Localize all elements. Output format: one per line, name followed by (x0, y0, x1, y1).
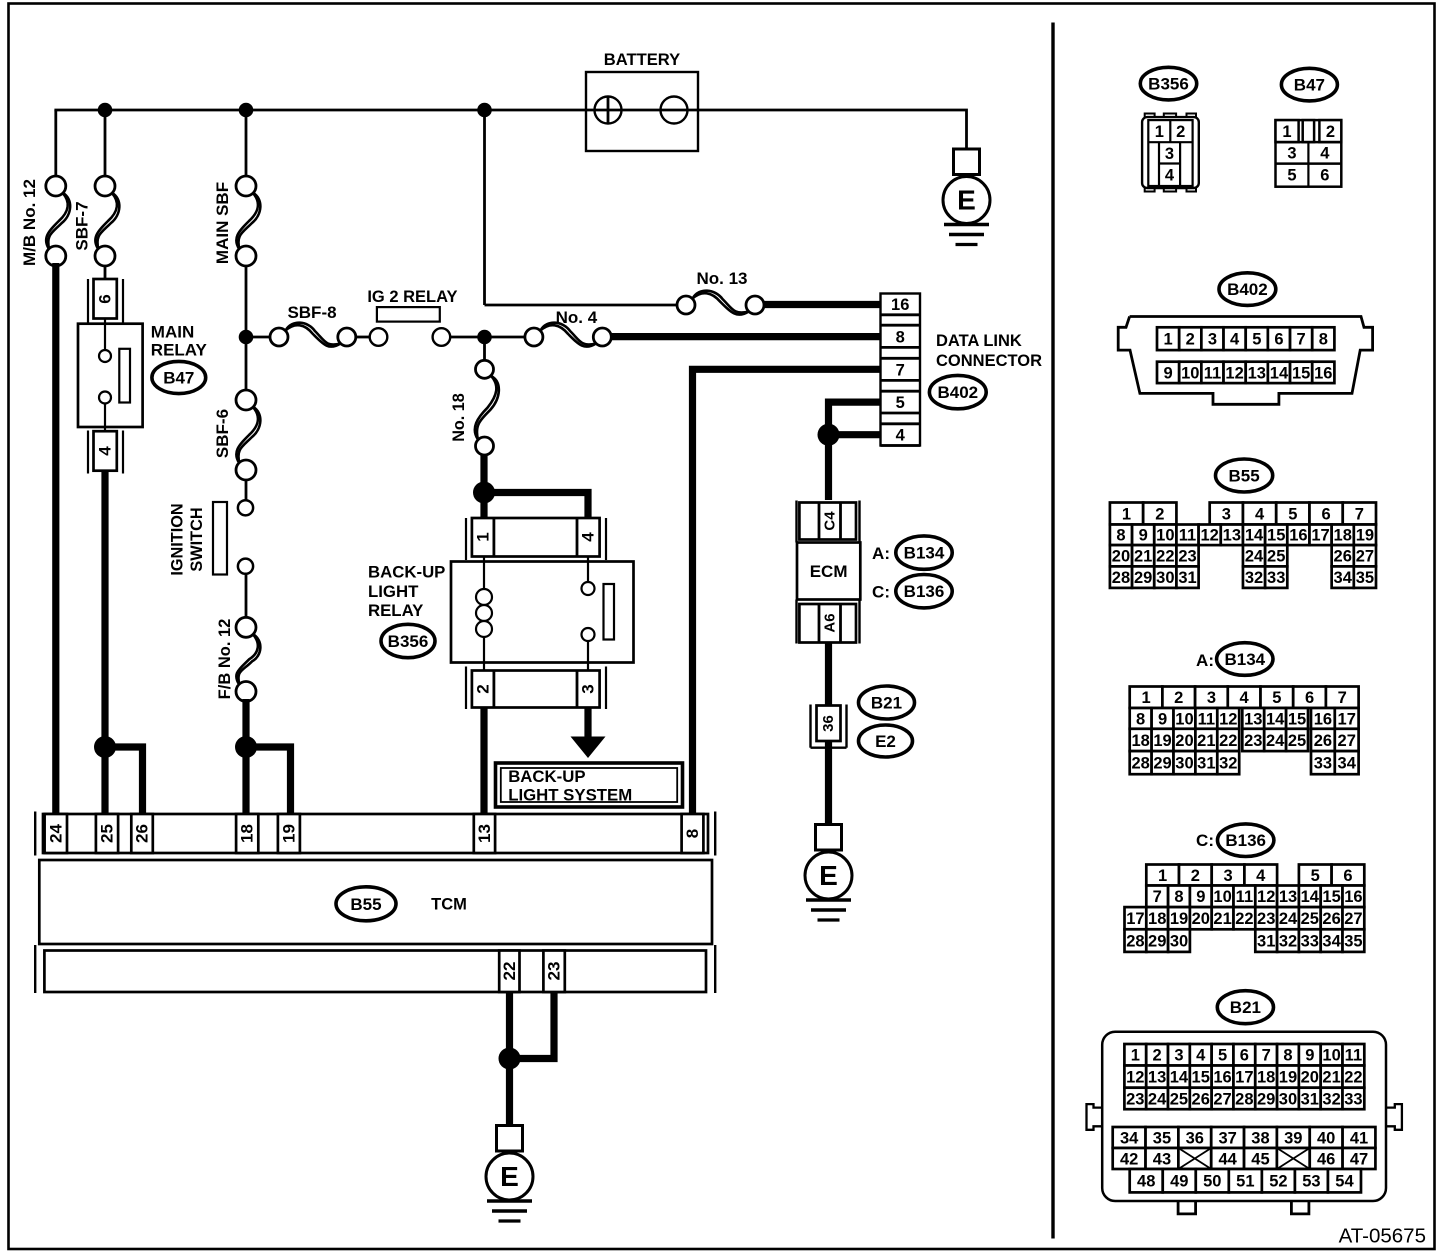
svg-text:12: 12 (1225, 364, 1243, 382)
svg-text:35: 35 (1356, 569, 1374, 587)
body connector pin 36 (811, 705, 847, 748)
IG 2 relay contact (370, 328, 451, 346)
connector B402 pin rows (1157, 327, 1334, 383)
svg-text:54: 54 (1335, 1173, 1354, 1191)
svg-text:19: 19 (1279, 1069, 1297, 1087)
svg-text:16: 16 (1314, 710, 1332, 728)
svg-text:18: 18 (1148, 910, 1166, 928)
svg-text:8: 8 (896, 328, 905, 346)
label C: B136 (872, 575, 952, 608)
connector ref oval B356 (pinout) (1140, 67, 1196, 100)
svg-text:47: 47 (1350, 1150, 1368, 1168)
svg-text:6: 6 (96, 294, 115, 303)
svg-text:TCM: TCM (431, 896, 467, 914)
svg-text:11: 11 (1204, 364, 1221, 382)
svg-text:1: 1 (1122, 505, 1131, 523)
wire - IG2 relay to No.4 junction (450, 336, 484, 339)
svg-text:B55: B55 (1229, 467, 1260, 486)
svg-text:6: 6 (1305, 689, 1314, 707)
svg-text:25: 25 (1170, 1090, 1188, 1108)
connector ref oval B402 (929, 375, 986, 408)
label BACK-UP LIGHT RELAY (368, 563, 445, 621)
svg-text:1: 1 (1131, 1047, 1140, 1065)
svg-text:34: 34 (1334, 569, 1353, 587)
svg-text:E: E (500, 1161, 519, 1192)
svg-text:LIGHT SYSTEM: LIGHT SYSTEM (508, 786, 632, 805)
wire - No.18 to back-up relay (bold) (480, 454, 487, 493)
svg-text:32: 32 (1219, 755, 1237, 773)
svg-text:24: 24 (1148, 1090, 1167, 1108)
svg-text:14: 14 (1170, 1069, 1189, 1087)
connector B21 pinout shell (1087, 1032, 1402, 1214)
TCM pin 24 (45, 814, 67, 853)
connector B134 pinout (1130, 687, 1359, 775)
svg-text:38: 38 (1251, 1129, 1269, 1147)
TCM pin 22 (499, 951, 519, 993)
wire - column SBF-7 (104, 110, 107, 177)
svg-text:15: 15 (1322, 888, 1340, 906)
svg-text:30: 30 (1175, 755, 1193, 773)
node - junction back-up relay coil/contact feed (473, 482, 495, 504)
svg-text:RELAY: RELAY (151, 341, 208, 360)
svg-text:28: 28 (1112, 569, 1130, 587)
svg-text:10: 10 (1175, 710, 1193, 728)
svg-text:11: 11 (1236, 888, 1253, 906)
label C: with oval B136 (pinout) (1196, 824, 1274, 857)
svg-text:13: 13 (1148, 1069, 1166, 1087)
wire - junction to SBF-8 (246, 336, 271, 339)
svg-text:3: 3 (1165, 145, 1174, 163)
main relay connector pin 4 (88, 431, 123, 474)
fuse No. 4 (541, 325, 596, 347)
svg-text:7: 7 (1355, 505, 1364, 523)
svg-text:30: 30 (1156, 569, 1174, 587)
svg-text:14: 14 (1266, 710, 1285, 728)
node - junction to TCM pin 19 (235, 736, 257, 758)
svg-text:28: 28 (1131, 755, 1149, 773)
svg-text:31: 31 (1178, 569, 1196, 587)
svg-text:4: 4 (1256, 867, 1266, 885)
TCM pin 26 (131, 814, 153, 853)
wire - No.13 to data link pin 16 (bold) (764, 301, 882, 308)
svg-text:19: 19 (1356, 527, 1374, 545)
wire - relay pin 4 to TCM pin 25 (bold) (101, 471, 108, 816)
svg-text:SBF-6: SBF-6 (213, 409, 232, 458)
svg-text:1: 1 (1282, 123, 1291, 141)
svg-text:15: 15 (1288, 710, 1306, 728)
svg-text:6: 6 (1322, 505, 1331, 523)
svg-text:42: 42 (1120, 1150, 1138, 1168)
svg-text:LIGHT: LIGHT (368, 582, 419, 601)
fuse M/B No. 12 (46, 193, 68, 250)
wire - column M/B No.12 (54, 110, 57, 177)
svg-text:B402: B402 (937, 383, 978, 402)
svg-text:27: 27 (1344, 910, 1362, 928)
svg-text:12: 12 (1126, 1069, 1144, 1087)
svg-text:49: 49 (1170, 1173, 1188, 1191)
svg-text:41: 41 (1350, 1129, 1368, 1147)
main relay connector pin 6 (88, 279, 123, 323)
svg-text:18: 18 (1334, 527, 1352, 545)
svg-text:C:: C: (1196, 831, 1214, 850)
svg-text:4: 4 (1320, 145, 1330, 163)
svg-text:31: 31 (1197, 755, 1215, 773)
svg-text:33: 33 (1314, 755, 1332, 773)
wire - M/B No.12 to TCM pin 24 (bold) (52, 263, 59, 816)
svg-text:1: 1 (1155, 123, 1164, 141)
svg-text:3: 3 (1287, 145, 1296, 163)
wire - SBF-7 to relay pin 6 (104, 265, 107, 280)
wire - No.4 to data link pin 8 (bold) (611, 333, 882, 340)
svg-text:20: 20 (1175, 732, 1193, 750)
svg-text:18: 18 (1257, 1069, 1275, 1087)
svg-text:18: 18 (1131, 732, 1149, 750)
relay B47 - MAIN RELAY box (78, 319, 143, 432)
svg-text:15: 15 (1292, 364, 1310, 382)
svg-text:16: 16 (1213, 1069, 1231, 1087)
svg-text:MAIN SBF: MAIN SBF (213, 182, 232, 264)
svg-text:BACK-UP: BACK-UP (368, 563, 445, 582)
svg-text:9: 9 (1305, 1047, 1314, 1065)
svg-text:21: 21 (1197, 732, 1215, 750)
svg-text:RELAY: RELAY (368, 601, 423, 620)
svg-text:4: 4 (579, 532, 598, 542)
relay coil (476, 589, 492, 637)
svg-text:26: 26 (133, 824, 152, 843)
svg-text:14: 14 (1245, 527, 1264, 545)
svg-text:25: 25 (1288, 732, 1306, 750)
svg-text:16: 16 (1344, 888, 1362, 906)
wire - TCM pin 22 to ground (bold) (506, 992, 513, 1059)
svg-text:B21: B21 (871, 694, 902, 713)
svg-text:13: 13 (1248, 364, 1266, 382)
svg-text:2: 2 (1153, 1047, 1162, 1065)
label MAIN RELAY (151, 323, 208, 360)
back-up light relay connector pins 2 and 3 (466, 667, 606, 710)
svg-text:19: 19 (1170, 910, 1188, 928)
connector B55 pinout (1110, 503, 1376, 588)
svg-text:26: 26 (1334, 548, 1352, 566)
svg-text:24: 24 (1279, 910, 1298, 928)
label A: B134 (872, 536, 952, 569)
svg-text:36: 36 (1186, 1129, 1204, 1147)
svg-text:3: 3 (1174, 1047, 1183, 1065)
connector B47 pinout (1276, 120, 1342, 187)
svg-text:3: 3 (1223, 867, 1232, 885)
svg-text:34: 34 (1322, 933, 1341, 951)
svg-text:A:: A: (1196, 651, 1214, 670)
connector ref oval B47 (152, 361, 206, 393)
wire - relay pin 2 to TCM pin 13 (bold) (480, 708, 487, 817)
svg-text:8: 8 (1174, 888, 1183, 906)
svg-text:C4: C4 (821, 511, 838, 531)
fuse SBF-8 (286, 325, 341, 347)
svg-text:9: 9 (1196, 888, 1205, 906)
svg-text:11: 11 (1179, 527, 1196, 545)
svg-text:E2: E2 (875, 732, 896, 751)
wire - data link pin 7 to TCM pin 8 (bold) (693, 369, 882, 816)
fuse MAIN SBF (236, 193, 258, 250)
svg-text:E: E (957, 184, 976, 215)
svg-text:40: 40 (1317, 1129, 1335, 1147)
svg-text:7: 7 (1262, 1047, 1271, 1065)
wire - junction to No.4 fuse (485, 336, 526, 339)
svg-text:27: 27 (1338, 732, 1356, 750)
connector ref oval B21 (859, 686, 915, 719)
relay B356 - back-up light relay box (451, 557, 634, 671)
svg-text:33: 33 (1301, 933, 1319, 951)
wire - SBF-8 to IG2 relay contact (356, 336, 370, 339)
TCM top connector row (35, 812, 715, 856)
svg-text:No. 18: No. 18 (450, 393, 468, 442)
svg-text:5: 5 (1288, 505, 1297, 523)
svg-text:3: 3 (1222, 505, 1231, 523)
svg-text:10: 10 (1322, 1047, 1340, 1065)
svg-text:8: 8 (1116, 527, 1125, 545)
svg-text:23: 23 (545, 962, 564, 981)
svg-text:IG 2 RELAY: IG 2 RELAY (367, 288, 457, 306)
svg-text:22: 22 (1219, 732, 1237, 750)
label A: with oval B134 (pinout) (1196, 643, 1273, 676)
svg-text:B402: B402 (1227, 280, 1268, 299)
svg-text:8: 8 (683, 829, 702, 838)
svg-text:1: 1 (1158, 867, 1167, 885)
connector ref oval B402 (pinout) (1219, 273, 1276, 306)
svg-text:24: 24 (1266, 732, 1285, 750)
svg-text:21: 21 (1213, 910, 1231, 928)
TCM pin 23 (543, 951, 564, 993)
wire - ignition switch to F/B No.12 (245, 574, 248, 618)
node - junction MAIN SBF branch (239, 103, 254, 118)
svg-text:34: 34 (1338, 755, 1357, 773)
wire - junction to SBF-6 (245, 337, 248, 391)
label DATA LINK CONNECTOR (936, 332, 1042, 370)
svg-text:1: 1 (1163, 331, 1172, 349)
svg-text:3: 3 (579, 684, 598, 693)
svg-text:26: 26 (1322, 910, 1340, 928)
svg-text:2: 2 (1186, 331, 1195, 349)
svg-text:29: 29 (1134, 569, 1152, 587)
svg-text:17: 17 (1235, 1069, 1253, 1087)
svg-text:33: 33 (1267, 569, 1285, 587)
svg-text:19: 19 (279, 824, 298, 843)
svg-text:6: 6 (1343, 867, 1352, 885)
svg-text:22: 22 (1156, 548, 1174, 566)
svg-text:B21: B21 (1230, 998, 1261, 1017)
svg-text:SBF-8: SBF-8 (287, 303, 336, 322)
TCM pin 25 (96, 814, 118, 853)
wire - relay pin 3 to back-up light system (bold) (584, 708, 591, 738)
svg-text:B356: B356 (388, 632, 429, 651)
svg-text:35: 35 (1344, 933, 1362, 951)
svg-text:8: 8 (1319, 331, 1328, 349)
svg-text:32: 32 (1279, 933, 1297, 951)
IG 2 relay box (377, 307, 440, 322)
wire - junction to data link pin 4 (bold) (829, 431, 882, 438)
svg-text:32: 32 (1322, 1090, 1340, 1108)
svg-text:30: 30 (1170, 933, 1188, 951)
connector ref oval B55 (336, 887, 396, 921)
svg-text:36: 36 (820, 715, 837, 732)
wire - junction to ground (bold) (506, 1059, 513, 1126)
svg-text:7: 7 (896, 361, 905, 379)
wire - data link pin 5 to ECM (bold) (829, 402, 882, 435)
box BACK-UP LIGHT SYSTEM (496, 763, 683, 807)
svg-text:4: 4 (1230, 331, 1240, 349)
svg-text:A:: A: (872, 544, 890, 563)
svg-text:7: 7 (1338, 689, 1347, 707)
svg-text:5: 5 (1252, 331, 1261, 349)
svg-text:6: 6 (1240, 1047, 1249, 1065)
svg-text:14: 14 (1270, 364, 1289, 382)
svg-text:MAIN: MAIN (151, 323, 194, 342)
svg-text:6: 6 (1274, 331, 1283, 349)
wire - SBF-6 to ignition switch (245, 479, 248, 500)
wire - MAIN SBF to SBF-8 junction (245, 265, 248, 337)
svg-text:21: 21 (1134, 548, 1152, 566)
relay contact (582, 557, 615, 671)
svg-text:CONNECTOR: CONNECTOR (936, 352, 1042, 370)
svg-text:13: 13 (1223, 527, 1241, 545)
svg-text:26: 26 (1192, 1090, 1210, 1108)
svg-text:31: 31 (1257, 933, 1275, 951)
svg-text:27: 27 (1213, 1090, 1231, 1108)
wire - junction to No.18 fuse (483, 337, 486, 360)
fuse F/B No. 12 (236, 634, 258, 685)
svg-text:B136: B136 (904, 582, 945, 601)
svg-text:10: 10 (1213, 888, 1231, 906)
ground E (TCM) (486, 1126, 533, 1222)
svg-text:M/B No. 12: M/B No. 12 (20, 179, 39, 266)
ECM connector A6 (797, 600, 860, 644)
fuse No. 18 (475, 376, 497, 440)
svg-text:5: 5 (1272, 689, 1281, 707)
connector B21 pin grid (1113, 1044, 1376, 1192)
label IGNITION SWITCH (168, 503, 206, 575)
svg-text:28: 28 (1235, 1090, 1253, 1108)
svg-text:12: 12 (1257, 888, 1275, 906)
svg-text:24: 24 (1245, 548, 1264, 566)
svg-text:16: 16 (1314, 364, 1332, 382)
svg-text:52: 52 (1269, 1173, 1287, 1191)
svg-text:39: 39 (1284, 1129, 1302, 1147)
svg-text:DATA LINK: DATA LINK (936, 332, 1022, 350)
svg-text:13: 13 (1244, 710, 1262, 728)
svg-text:F/B No. 12: F/B No. 12 (216, 619, 234, 700)
svg-text:11: 11 (1345, 1047, 1362, 1065)
battery (586, 72, 698, 151)
svg-text:A6: A6 (821, 613, 838, 632)
svg-text:8: 8 (1283, 1047, 1292, 1065)
node - junction ECM feed (818, 424, 840, 446)
connector ref oval E2 (859, 725, 913, 757)
svg-text:5: 5 (1287, 166, 1296, 184)
svg-text:29: 29 (1153, 755, 1171, 773)
svg-text:B136: B136 (1225, 831, 1266, 850)
svg-text:7: 7 (1297, 331, 1306, 349)
svg-text:24: 24 (46, 824, 65, 843)
svg-text:3: 3 (1207, 689, 1216, 707)
svg-text:1: 1 (1141, 689, 1150, 707)
svg-text:9: 9 (1139, 527, 1148, 545)
connector ref oval B356 (381, 624, 435, 657)
svg-text:22: 22 (1235, 910, 1253, 928)
TCM pin 18 (236, 814, 258, 853)
svg-text:13: 13 (1279, 888, 1297, 906)
wire - branch to TCM pin 19 (bold) (246, 747, 291, 816)
svg-text:5: 5 (896, 394, 905, 412)
svg-text:27: 27 (1356, 548, 1374, 566)
svg-text:2: 2 (1191, 867, 1200, 885)
svg-text:B134: B134 (904, 544, 945, 563)
svg-text:20: 20 (1301, 1069, 1319, 1087)
svg-text:25: 25 (1301, 910, 1319, 928)
svg-text:29: 29 (1257, 1090, 1275, 1108)
node - junction to TCM pin 26 (94, 736, 116, 758)
svg-text:7: 7 (1153, 888, 1162, 906)
wire - battery positive bus (top horizontal) (54, 109, 586, 112)
connector ref oval B21 (pinout) (1217, 991, 1273, 1024)
node - junction M/B No.12 branch (98, 103, 113, 118)
TCM bottom connector row (35, 945, 715, 993)
svg-text:16: 16 (1289, 527, 1307, 545)
svg-text:11: 11 (1198, 710, 1215, 728)
svg-text:25: 25 (98, 824, 117, 843)
svg-text:SWITCH: SWITCH (188, 507, 206, 571)
svg-text:B47: B47 (163, 369, 194, 388)
svg-text:35: 35 (1153, 1129, 1171, 1147)
wire - F/B No.12 to TCM pin 18 (bold) (242, 699, 249, 816)
svg-text:21: 21 (1322, 1069, 1340, 1087)
svg-text:17: 17 (1311, 527, 1329, 545)
svg-text:B47: B47 (1294, 76, 1325, 95)
svg-text:23: 23 (1244, 732, 1262, 750)
wire - connector 36 to ground (bold) (825, 741, 832, 825)
fuse SBF-6 (236, 407, 258, 464)
svg-text:37: 37 (1218, 1129, 1236, 1147)
svg-text:22: 22 (1344, 1069, 1362, 1087)
connector B136 pinout (1125, 865, 1365, 952)
ground E (ECM) (805, 825, 852, 921)
svg-text:6: 6 (1320, 166, 1329, 184)
svg-text:5: 5 (1218, 1047, 1227, 1065)
svg-text:2: 2 (1174, 689, 1183, 707)
arrow to back-up light system (571, 737, 606, 759)
wire - TCM pin 23 to ground junction (bold) (510, 992, 555, 1059)
svg-text:C:: C: (872, 583, 890, 602)
svg-text:51: 51 (1236, 1173, 1254, 1191)
svg-text:32: 32 (1245, 569, 1263, 587)
svg-text:4: 4 (896, 427, 906, 445)
svg-text:26: 26 (1314, 732, 1332, 750)
svg-text:13: 13 (475, 824, 494, 843)
svg-text:18: 18 (238, 824, 257, 843)
ECM connector C4 (797, 501, 860, 543)
svg-text:22: 22 (500, 962, 519, 981)
node - junction SBF-8 branch (239, 330, 254, 345)
svg-text:20: 20 (1192, 910, 1210, 928)
wire - battery feed down to No.13 branch (485, 110, 678, 305)
wire - column MAIN SBF (245, 110, 248, 177)
svg-text:10: 10 (1181, 364, 1199, 382)
svg-text:E: E (819, 860, 838, 891)
svg-text:20: 20 (1112, 548, 1130, 566)
svg-text:30: 30 (1279, 1090, 1297, 1108)
svg-text:23: 23 (1178, 548, 1196, 566)
svg-text:ECM: ECM (810, 562, 848, 581)
ECM box (797, 543, 860, 600)
svg-text:4: 4 (96, 446, 115, 456)
